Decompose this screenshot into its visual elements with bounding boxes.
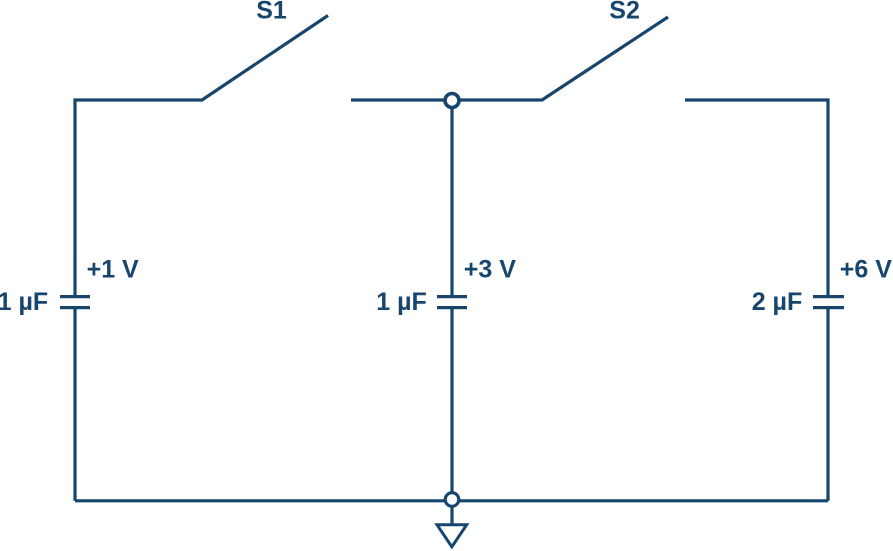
svg-text:+3 V: +3 V [464, 256, 516, 284]
svg-text:1 µF: 1 µF [0, 288, 48, 316]
svg-text:2 µF: 2 µF [752, 288, 803, 316]
svg-text:+6 V: +6 V [840, 256, 892, 284]
svg-text:1 µF: 1 µF [376, 288, 427, 316]
svg-text:+1 V: +1 V [87, 256, 139, 284]
svg-text:S2: S2 [609, 0, 640, 25]
svg-text:S1: S1 [256, 0, 287, 25]
